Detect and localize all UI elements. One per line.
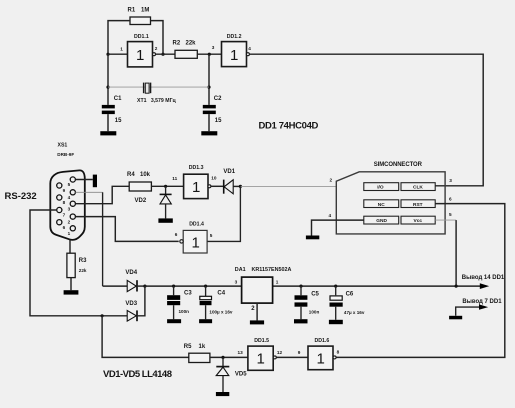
- svg-text:DRB-9F: DRB-9F: [57, 152, 74, 157]
- svg-text:8: 8: [63, 200, 66, 205]
- op-amp gate DD1.5: [238, 338, 283, 370]
- svg-text:5: 5: [449, 212, 452, 217]
- svg-text:C1: C1: [114, 96, 122, 102]
- wire R4 to DD1.3: [151, 185, 183, 187]
- svg-text:SIMCONNECTOR: SIMCONNECTOR: [374, 162, 423, 168]
- svg-text:C3: C3: [184, 290, 192, 296]
- svg-text:VD5: VD5: [235, 372, 247, 378]
- svg-text:8: 8: [337, 349, 340, 354]
- node C5: [299, 285, 302, 288]
- svg-text:CLK: CLK: [413, 185, 423, 191]
- node crystal right: [207, 86, 210, 89]
- capacitor C3: [167, 286, 192, 319]
- diode VD1: [223, 169, 240, 194]
- ground VD2: [158, 218, 172, 222]
- resistor R5: [184, 344, 210, 363]
- wire R1 feedback loop: [108, 21, 163, 55]
- svg-text:22k: 22k: [186, 40, 197, 46]
- svg-text:1k: 1k: [199, 344, 206, 350]
- svg-text:DD1.4: DD1.4: [189, 221, 204, 227]
- svg-text:3: 3: [212, 45, 215, 50]
- svg-text:47µ x 16v: 47µ x 16v: [344, 310, 365, 315]
- svg-text:1: 1: [68, 231, 71, 236]
- svg-text:2: 2: [155, 46, 158, 51]
- svg-text:100n: 100n: [179, 309, 190, 314]
- svg-text:10k: 10k: [140, 172, 151, 178]
- svg-text:R4: R4: [127, 172, 135, 178]
- svg-text:VD1-VD5 LL4148: VD1-VD5 LL4148: [103, 369, 172, 380]
- op-amp gate DD1.4: [175, 221, 213, 253]
- pin 5: [70, 177, 75, 182]
- wire I/O line to SIM connector: [240, 185, 336, 187]
- svg-text:Вывод 7 DD1: Вывод 7 DD1: [462, 299, 502, 305]
- resistor R3: [67, 253, 87, 290]
- op-amp gate DD1.2: [222, 34, 252, 67]
- svg-text:1: 1: [136, 47, 144, 64]
- wire crystal branch: [108, 86, 209, 88]
- svg-text:4: 4: [248, 46, 251, 51]
- svg-text:XS1: XS1: [58, 143, 68, 149]
- pin 8: [57, 195, 62, 200]
- svg-text:2: 2: [68, 219, 71, 224]
- svg-text:15: 15: [115, 118, 122, 124]
- svg-text:9: 9: [63, 188, 66, 193]
- svg-text:R1: R1: [128, 8, 136, 14]
- ground VD5: [216, 392, 229, 396]
- node VD5: [221, 356, 224, 359]
- capacitor C6: [330, 286, 365, 320]
- ground pin5 bar: [93, 175, 97, 188]
- pin 2: [70, 214, 75, 219]
- pin box I/O: [364, 183, 399, 191]
- pin 4: [70, 190, 75, 195]
- svg-text:13: 13: [238, 350, 244, 355]
- svg-text:6: 6: [63, 225, 66, 230]
- wire I/O down to DD1.4 input: [207, 186, 240, 241]
- svg-text:DD1.1: DD1.1: [134, 34, 149, 40]
- node VD2: [164, 185, 167, 188]
- svg-text:VD3: VD3: [125, 301, 137, 307]
- wire into DD1.1: [108, 53, 128, 55]
- svg-text:C5: C5: [311, 291, 319, 297]
- capacitor C2: [203, 96, 222, 131]
- wire pin2 to DD1.4 output: [75, 217, 178, 242]
- svg-text:1: 1: [276, 280, 279, 285]
- svg-text:6: 6: [175, 232, 178, 237]
- ground C3: [167, 319, 181, 323]
- svg-text:5: 5: [210, 233, 213, 238]
- wire DD1.5 to DD1.6: [276, 356, 308, 358]
- svg-text:1: 1: [317, 350, 325, 367]
- svg-text:DA1: DA1: [235, 267, 246, 273]
- connector SIMCONNECTOR: [329, 162, 453, 234]
- crystal XT1: [137, 83, 177, 104]
- svg-text:VD4: VD4: [125, 270, 137, 276]
- ground pin 7 DD1: [449, 316, 462, 320]
- svg-text:1: 1: [192, 234, 200, 251]
- svg-text:1: 1: [120, 47, 123, 52]
- op-amp gate DD1.3: [172, 165, 217, 199]
- svg-text:100µ x 16v: 100µ x 16v: [209, 309, 233, 314]
- node input DD1.1: [106, 53, 109, 56]
- wire RST to DD1.6 output: [336, 204, 505, 358]
- svg-text:7: 7: [63, 213, 66, 218]
- diode VD5: [216, 357, 247, 392]
- wire DD1.2 output to CLK pin of SIM connector: [249, 54, 483, 186]
- diode VD2: [135, 186, 172, 218]
- wire DD1.3 to VD1: [211, 185, 224, 187]
- svg-text:11: 11: [172, 176, 177, 181]
- pin box GND: [364, 216, 399, 224]
- ground C5: [294, 319, 308, 323]
- node Vcc rail: [455, 285, 458, 288]
- node C4: [204, 285, 207, 288]
- pin 7: [57, 207, 62, 212]
- svg-text:4: 4: [329, 213, 332, 218]
- wire right oscillator column: [208, 54, 210, 105]
- voltage regulator DA1: [235, 267, 292, 320]
- pin box NC: [364, 200, 399, 208]
- ground C2: [201, 131, 217, 135]
- diode VD3: [125, 286, 144, 321]
- svg-text:DD1.6: DD1.6: [315, 338, 330, 344]
- svg-text:12: 12: [277, 350, 283, 355]
- svg-text:3: 3: [449, 178, 452, 183]
- svg-text:Вывод 14 DD1: Вывод 14 DD1: [462, 275, 505, 281]
- svg-text:10: 10: [211, 175, 217, 180]
- svg-text:VD2: VD2: [135, 198, 147, 204]
- node C3: [172, 285, 175, 288]
- wire +5V rail: [145, 285, 480, 287]
- svg-text:R2: R2: [173, 40, 181, 46]
- ground C4: [199, 319, 212, 323]
- capacitor C1: [102, 96, 122, 131]
- arrow to pin 14 DD1: [480, 283, 489, 289]
- node C6: [334, 285, 337, 288]
- svg-text:VD1: VD1: [223, 169, 235, 175]
- pin 9: [57, 183, 62, 188]
- svg-text:RS-232: RS-232: [5, 191, 37, 202]
- wire R2 to DD1.2: [197, 53, 221, 55]
- pin 1: [70, 226, 75, 231]
- wire pin5 to ground: [75, 179, 92, 181]
- svg-text:C2: C2: [214, 96, 222, 102]
- svg-text:1: 1: [230, 47, 238, 64]
- capacitor C5: [295, 286, 320, 319]
- ground R3: [64, 290, 79, 294]
- wire left oscillator column: [107, 54, 109, 105]
- svg-text:Vcc: Vcc: [414, 218, 423, 224]
- node output DD1.1: [161, 53, 164, 56]
- svg-text:DD1.2: DD1.2: [227, 34, 242, 40]
- ground SIM: [306, 236, 319, 240]
- svg-text:C4: C4: [217, 290, 225, 296]
- svg-text:DD1.3: DD1.3: [189, 165, 204, 171]
- capacitor C4: [200, 286, 233, 319]
- wire DB9 tail: [69, 240, 71, 254]
- ground C1: [100, 131, 116, 135]
- pin box CLK: [401, 183, 435, 191]
- svg-text:100n: 100n: [309, 309, 320, 314]
- node crystal left: [106, 86, 109, 89]
- svg-text:I/O: I/O: [377, 185, 384, 191]
- resistor R4: [127, 172, 151, 191]
- svg-text:XT1 3,579 МГц: XT1 3,579 МГц: [137, 98, 177, 104]
- pin box Vcc: [401, 216, 435, 224]
- svg-text:DD1 74HC04D: DD1 74HC04D: [259, 121, 319, 132]
- svg-text:4: 4: [68, 195, 71, 200]
- node VD4/rail: [143, 285, 146, 288]
- svg-text:RST: RST: [413, 202, 423, 208]
- wire pin7 to VD3 and R5: [30, 210, 127, 316]
- svg-text:9: 9: [298, 350, 301, 355]
- svg-text:1: 1: [192, 179, 200, 196]
- svg-text:6: 6: [449, 197, 452, 202]
- svg-text:DD1.5: DD1.5: [254, 338, 269, 344]
- svg-text:R5: R5: [184, 344, 192, 350]
- svg-text:3: 3: [235, 279, 238, 284]
- svg-text:C6: C6: [346, 291, 354, 297]
- wire pin3 to R4: [76, 186, 129, 203]
- wire pin4 to VD4: [75, 191, 102, 193]
- wire R5 to DD1.5: [210, 356, 248, 358]
- node 3: [208, 53, 211, 56]
- svg-text:R3: R3: [79, 258, 87, 264]
- diode VD4: [103, 270, 145, 292]
- svg-text:22k: 22k: [79, 268, 87, 273]
- node I/O: [239, 185, 242, 188]
- connector XS1: [50, 143, 85, 240]
- svg-text:15: 15: [215, 118, 222, 124]
- svg-text:KR1157EN502A: KR1157EN502A: [252, 267, 292, 273]
- op-amp gate DD1.6: [298, 338, 340, 370]
- resistor R2: [173, 40, 198, 58]
- pin box RST: [401, 200, 435, 208]
- pin 6: [57, 220, 62, 225]
- ground DA1: [250, 320, 264, 324]
- resistor R1: [128, 8, 151, 25]
- wire arrow to pin 7 DD1: [456, 307, 480, 316]
- svg-text:2: 2: [330, 177, 333, 182]
- svg-text:5: 5: [68, 182, 71, 187]
- op-amp gate DD1.1: [120, 34, 158, 67]
- pin 3: [70, 201, 75, 206]
- wire DD1.1 out to R2: [156, 53, 176, 55]
- svg-text:1M: 1M: [141, 8, 149, 14]
- wire Vcc to +5V rail: [435, 219, 456, 221]
- svg-text:GND: GND: [376, 218, 387, 224]
- ground C6: [329, 320, 343, 324]
- svg-text:NC: NC: [378, 202, 385, 208]
- svg-text:1: 1: [257, 350, 265, 367]
- wire SIM GND to ground: [312, 220, 364, 235]
- svg-text:3: 3: [68, 206, 71, 211]
